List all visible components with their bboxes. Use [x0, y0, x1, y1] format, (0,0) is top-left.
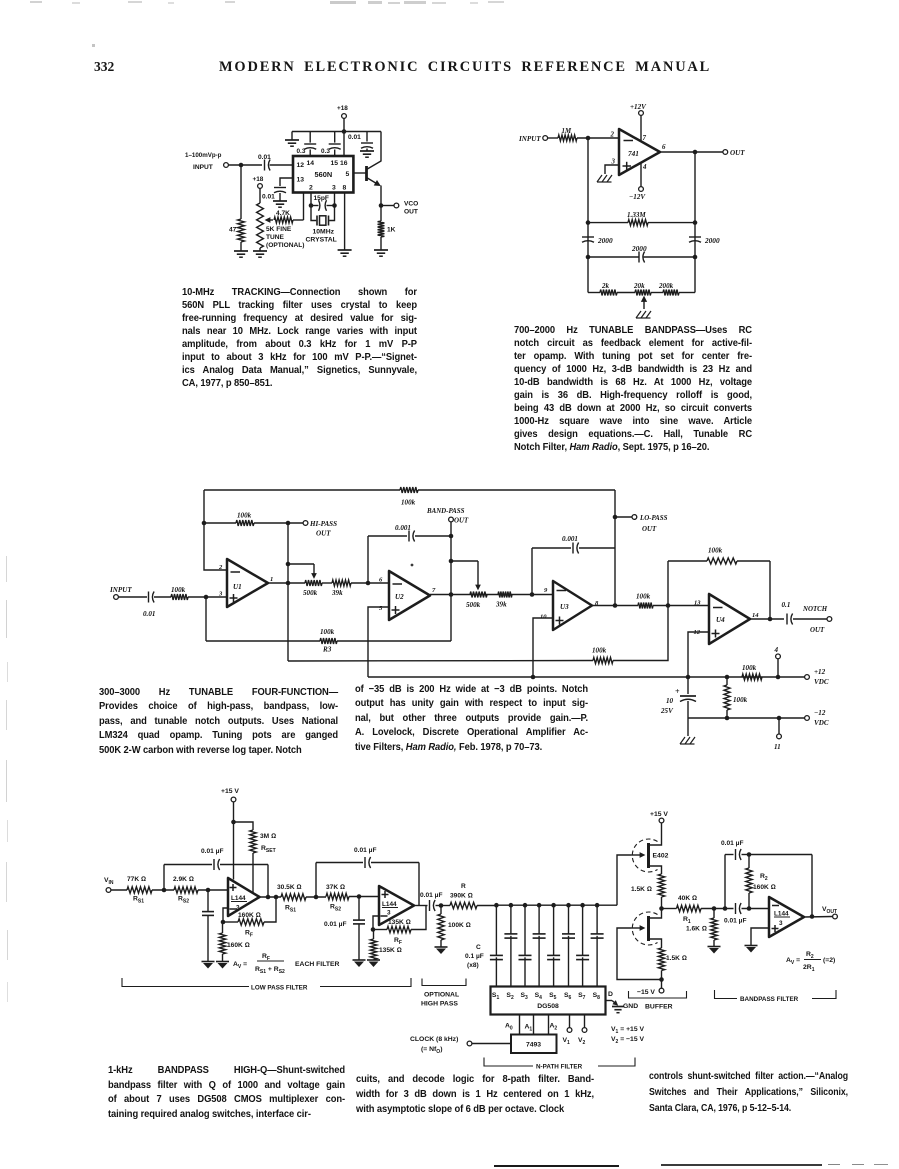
middle notch wire with capacitor 2000 — [586, 255, 591, 260]
capacitor 2000 right — [689, 236, 701, 238]
ground under op2 input cap — [353, 959, 366, 961]
svg-text:EACH FILTER: EACH FILTER — [295, 961, 340, 968]
U3 pin 10 to common rail — [533, 618, 553, 677]
svg-text:VDC: VDC — [814, 678, 829, 686]
DG508 multiplexer box — [491, 987, 606, 1015]
op-amp 1 L144/3 — [228, 878, 260, 916]
ground at 20k wiper — [636, 311, 641, 318]
svg-text:CRYSTAL: CRYSTAL — [306, 237, 337, 244]
U3 output wire with 100k — [592, 605, 638, 607]
supply wire into op-amp 1 — [233, 802, 235, 880]
svg-text:3: 3 — [218, 591, 223, 598]
svg-text:10: 10 — [540, 614, 547, 621]
svg-text:(x8): (x8) — [467, 962, 479, 969]
svg-text:BAND-PASS: BAND-PASS — [426, 508, 465, 515]
pin 11 terminal — [778, 718, 780, 734]
-12 VDC terminal — [805, 716, 810, 721]
resistor 100k bias divider — [726, 677, 728, 685]
svg-text:1K: 1K — [387, 227, 396, 234]
svg-text:0.001: 0.001 — [562, 535, 578, 543]
svg-text:30.5K Ω: 30.5K Ω — [277, 884, 302, 891]
svg-text:VDC: VDC — [814, 719, 829, 727]
svg-text:16: 16 — [340, 160, 348, 167]
CLOCK input terminal — [467, 1041, 472, 1046]
wire 1M to opamp pin 2 — [577, 137, 619, 139]
svg-text:2R1: 2R1 — [803, 964, 815, 973]
bottom tuning network wire — [588, 292, 600, 294]
pin 3 ground wire — [605, 165, 619, 174]
svg-text:100k: 100k — [636, 593, 651, 601]
svg-text:L144: L144 — [231, 895, 246, 902]
svg-text:0.01 µF: 0.01 µF — [354, 847, 377, 854]
node -15V junction — [659, 977, 664, 982]
collector wire to top rail — [380, 132, 382, 162]
ground under 160K — [216, 961, 229, 963]
svg-text:8: 8 — [343, 185, 347, 192]
INPUT terminal — [543, 136, 548, 141]
capacitor 0.1 notch output — [786, 614, 788, 625]
svg-text:2k: 2k — [601, 282, 610, 290]
address pins A0 A1 A2 — [519, 1015, 521, 1035]
svg-text:12: 12 — [297, 162, 305, 169]
+18 terminal fine-tune supply — [258, 184, 263, 189]
resistor 100k hi-pass feedback — [204, 522, 236, 524]
svg-text:R2: R2 — [760, 873, 768, 882]
resistor 1.5K lower — [658, 948, 664, 971]
svg-text:0.01: 0.01 — [262, 194, 275, 201]
svg-text:7: 7 — [432, 587, 436, 594]
svg-text:INPUT: INPUT — [109, 586, 132, 594]
svg-text:135K Ω: 135K Ω — [379, 947, 402, 954]
bypass cap 0.3 on pin 14 — [309, 150, 311, 157]
svg-text:3: 3 — [236, 905, 240, 912]
svg-text:+12: +12 — [814, 668, 826, 676]
svg-text:TUNE: TUNE — [266, 234, 285, 241]
svg-text:100k: 100k — [742, 664, 757, 672]
U4 output wire — [750, 618, 784, 620]
svg-text:0.01 µF: 0.01 µF — [324, 921, 347, 928]
svg-text:0.01: 0.01 — [348, 134, 361, 141]
svg-text:160K Ω: 160K Ω — [753, 884, 776, 891]
svg-text:2: 2 — [610, 132, 615, 139]
op-amp U3 — [553, 581, 592, 630]
resistor R 390K — [450, 902, 477, 908]
ground under op1 input cap — [202, 961, 215, 963]
svg-text:500k: 500k — [466, 601, 481, 609]
svg-text:100k: 100k — [733, 696, 748, 704]
node after R1 — [712, 906, 717, 911]
potentiometer 20k — [635, 290, 651, 296]
wire input to coupling cap — [228, 164, 262, 166]
svg-text:INPUT: INPUT — [518, 135, 541, 143]
svg-text:L144: L144 — [774, 911, 789, 918]
svg-text:HIGH PASS: HIGH PASS — [421, 1001, 458, 1008]
caption text: 300-3000 Hz TUNABLE FOUR-FUNCTION left column — [99, 686, 338, 758]
resistor 47 — [240, 165, 242, 219]
capacitor 0.01 input — [148, 592, 150, 603]
svg-text:47: 47 — [229, 227, 237, 234]
coupling capacitor 0.01uF — [414, 905, 428, 907]
LOW PASS FILTER bracket — [122, 978, 249, 987]
node output junction — [693, 150, 698, 155]
ground under resistor 47 — [234, 250, 248, 252]
vertical U1 output to feedbacks — [287, 523, 289, 661]
BANDPASS FILTER bracket — [715, 990, 738, 999]
svg-text:135K Ω: 135K Ω — [388, 919, 411, 926]
svg-text:L144: L144 — [382, 901, 397, 908]
-15 V terminal — [661, 980, 663, 989]
svg-text:U4: U4 — [716, 616, 725, 624]
node hi-pass junction — [286, 521, 291, 526]
svg-text:2000: 2000 — [631, 244, 647, 253]
resistor 100k U1-output to U4 lower feedback wire — [288, 660, 593, 663]
svg-text:39k: 39k — [495, 601, 507, 609]
electrolytic capacitor 10uF 25V — [687, 677, 689, 694]
stray print speck near U2 — [411, 564, 414, 567]
wire input to 1M — [548, 137, 558, 139]
LO-PASS OUT terminal — [615, 516, 632, 518]
OUT terminal — [723, 150, 728, 155]
svg-text:100k: 100k — [592, 647, 607, 655]
crystal 10MHz — [311, 206, 316, 221]
svg-text:5: 5 — [379, 605, 383, 612]
op1 - input stub — [223, 908, 228, 922]
svg-text:3: 3 — [332, 185, 336, 192]
svg-text:0.01 µF: 0.01 µF — [721, 840, 744, 847]
svg-text:NOTCH: NOTCH — [802, 606, 828, 613]
bypass cap 0.3 on pin 15 — [334, 150, 336, 157]
ground under 100K — [435, 946, 448, 948]
JFET lower — [631, 927, 640, 929]
node +18 top rail junction — [342, 129, 347, 134]
resistor R3 100k notch feedback — [206, 640, 320, 642]
wire cap to pin 12 — [270, 164, 293, 166]
op-amp U2 — [389, 571, 430, 620]
+15 V terminal stage 1 — [231, 797, 236, 802]
node VCO out junction — [379, 203, 384, 208]
svg-text:OUT: OUT — [404, 209, 418, 216]
node op2 + input junction — [357, 894, 362, 899]
capacitor 2000 left — [582, 236, 594, 238]
coupling capacitor 0.01uF bandpass — [735, 903, 737, 914]
left feedback vertical to U1 pin 2 — [204, 490, 227, 570]
svg-text:N-PATH FILTER: N-PATH FILTER — [536, 1064, 583, 1071]
svg-text:741: 741 — [628, 149, 639, 158]
svg-text:V1 = +15 V: V1 = +15 V — [611, 1026, 644, 1035]
svg-text:R2: R2 — [806, 951, 814, 960]
svg-text:E402: E402 — [653, 853, 669, 860]
svg-text:11: 11 — [774, 743, 781, 751]
potentiometer 500k (2) — [470, 592, 487, 598]
resistor 1M — [558, 135, 577, 141]
resistor R1 40K — [662, 908, 677, 910]
svg-text:160K Ω: 160K Ω — [238, 912, 261, 919]
svg-text:4.7K: 4.7K — [276, 210, 290, 217]
resistor 100k input — [154, 596, 171, 598]
-12 VDC rail — [688, 717, 805, 719]
switch column S8 wire and capacitor C — [595, 903, 600, 908]
ground under 1.6K — [708, 946, 721, 948]
svg-text:VOUT: VOUT — [822, 906, 837, 915]
7493 counter box — [511, 1035, 557, 1054]
svg-text:4: 4 — [774, 646, 779, 654]
wire 4.7K to IC bottom pin — [293, 219, 304, 221]
switch column S4 wire and capacitor C — [537, 903, 542, 908]
right vertical lo-pass node — [614, 490, 616, 606]
svg-text:2: 2 — [309, 185, 313, 192]
svg-text:DG508: DG508 — [537, 1003, 559, 1010]
caption text: 1-kHz BANDPASS column 2 — [356, 1073, 594, 1118]
wiper arrow of 5K pot — [270, 219, 273, 221]
svg-text:RF: RF — [245, 930, 253, 939]
svg-text:1.5K Ω: 1.5K Ω — [666, 955, 687, 962]
svg-text:4: 4 — [642, 164, 647, 171]
svg-text:RS1: RS1 — [133, 896, 144, 905]
capacitor 0.01 collector bypass — [366, 132, 368, 142]
scan artifact: bottom rule fragments — [494, 1165, 619, 1168]
svg-text:RS2: RS2 — [178, 896, 189, 905]
op1 output wire — [260, 896, 282, 898]
resistor 135K to ground — [373, 930, 375, 940]
circuit 1: 560N PLL tracking filter — [185, 105, 418, 257]
ground under 1K — [374, 249, 388, 251]
capacitor 0.01 input coupling — [264, 160, 266, 171]
wiper branch of 500k pot 2 — [451, 560, 478, 562]
capacitor 0.001 U3 feedback — [532, 547, 571, 549]
svg-text:BANDPASS FILTER: BANDPASS FILTER — [740, 996, 799, 1003]
ground at op3 + — [745, 945, 758, 947]
NOTCH OUT terminal — [793, 618, 827, 620]
resistor 4.7K — [274, 217, 293, 223]
svg-text:(=2): (=2) — [823, 957, 835, 964]
svg-text:100K Ω: 100K Ω — [448, 922, 471, 929]
top rail wire — [292, 131, 381, 133]
svg-text:13: 13 — [694, 600, 701, 607]
running head MODERN ELECTRONIC CIRCUITS REFERENCE MANUAL — [219, 59, 711, 76]
resistor 39k (1) — [322, 582, 332, 584]
svg-text:−12: −12 — [814, 709, 826, 717]
buffer gate wire from bank — [617, 855, 631, 905]
VIN input terminal — [106, 888, 111, 893]
svg-text:100k: 100k — [320, 628, 335, 636]
wire +18 to pin 16 — [343, 118, 345, 156]
svg-text:10: 10 — [666, 697, 674, 705]
svg-text:200k: 200k — [658, 282, 674, 290]
input terminal 1-100mVp-p INPUT — [224, 163, 229, 168]
resistor 1K — [380, 206, 382, 222]
svg-text:9: 9 — [544, 587, 548, 594]
U4 pin 12 to common rail — [688, 632, 709, 677]
capacitor 0.001 U2 feedback — [368, 535, 407, 537]
switch column S1 wire and capacitor C — [494, 903, 499, 908]
node buffer output — [659, 906, 664, 911]
svg-text:OUT: OUT — [642, 526, 657, 533]
resistor 160K to ground — [222, 922, 224, 933]
svg-text:0.3: 0.3 — [321, 148, 330, 155]
resistor R2 160K — [748, 855, 750, 869]
svg-text:14: 14 — [307, 160, 315, 167]
op-amp 3 L144/3 bandpass — [769, 897, 804, 937]
potentiometer 5K FINE TUNE — [257, 203, 264, 248]
node U3 input junction — [530, 592, 535, 597]
BUFFER bracket — [629, 991, 687, 998]
capacitor bank top rail — [496, 904, 617, 906]
svg-text:OPTIONAL: OPTIONAL — [424, 992, 459, 999]
svg-text:10MHz: 10MHz — [313, 229, 335, 236]
svg-text:−15 V: −15 V — [637, 989, 655, 996]
svg-text:100k: 100k — [237, 512, 252, 520]
page number 332 — [94, 59, 114, 75]
VOUT terminal — [804, 916, 833, 919]
svg-text:100k: 100k — [171, 586, 186, 594]
+15 V terminal buffer — [659, 818, 664, 823]
wire input node down to R3 — [205, 597, 207, 641]
svg-text:U3: U3 — [560, 603, 569, 611]
resistor 39k (2) — [498, 592, 512, 598]
op-amp U4 — [709, 594, 750, 644]
svg-text:0.01: 0.01 — [143, 610, 155, 618]
resistor 1.33M feedback — [586, 220, 591, 225]
svg-text:20k: 20k — [633, 282, 645, 290]
common rail to +12 VDC — [368, 676, 805, 678]
svg-text:R: R — [461, 883, 466, 890]
caption text: 1-kHz BANDPASS column 3 — [649, 1069, 848, 1117]
resistor RS2 37K — [326, 893, 349, 899]
svg-text:RF: RF — [394, 937, 402, 946]
svg-text:2.9K Ω: 2.9K Ω — [173, 876, 194, 883]
op3 + input to ground — [751, 928, 769, 945]
svg-text:77K Ω: 77K Ω — [127, 876, 146, 883]
ground under 135K — [367, 959, 380, 961]
svg-text:V1: V1 — [563, 1037, 571, 1046]
svg-text:AV =: AV = — [233, 961, 247, 970]
scan artifact: speck above page number — [92, 44, 95, 47]
ground at pin 3 — [597, 175, 602, 182]
svg-text:CLOCK (8 kHz): CLOCK (8 kHz) — [410, 1036, 458, 1043]
svg-text:OUT: OUT — [316, 530, 331, 538]
svg-text:0.01 µF: 0.01 µF — [201, 848, 224, 855]
circuit 3: 300-3000 Hz tunable four-function filter — [109, 487, 832, 751]
caption text: 1-kHz BANDPASS HIGH-Q column 1 — [108, 1064, 345, 1122]
svg-text:2000: 2000 — [704, 236, 720, 245]
svg-text:R3: R3 — [322, 646, 332, 654]
caption text: 700-2000 Hz TUNABLE BANDPASS — [514, 325, 752, 455]
svg-text:VIN: VIN — [104, 877, 114, 886]
svg-text:V2: V2 — [578, 1037, 586, 1046]
ground under 5K pot — [253, 250, 267, 252]
resistor RS2 2.9K — [174, 887, 198, 893]
node stage2 input junction — [314, 895, 319, 900]
node inverting input junction — [586, 136, 591, 141]
svg-text:160K Ω: 160K Ω — [227, 942, 250, 949]
vertical to U2 0.001 cap — [367, 536, 369, 583]
resistor RF 135K — [373, 929, 387, 931]
svg-text:HI-PASS: HI-PASS — [309, 520, 337, 528]
svg-text:A1: A1 — [525, 1024, 533, 1033]
band-pass node vertical — [450, 522, 452, 641]
node U2 input junction — [366, 581, 371, 586]
svg-text:25V: 25V — [660, 707, 674, 715]
svg-text:1M: 1M — [562, 128, 572, 135]
svg-text:U1: U1 — [233, 583, 242, 591]
resistor 1.5K upper — [658, 874, 664, 897]
svg-text:560N: 560N — [315, 170, 333, 179]
svg-text:+18: +18 — [253, 176, 264, 183]
capacitor to ground at op1 input — [207, 890, 209, 911]
svg-text:+12V: +12V — [630, 103, 647, 111]
svg-text:C: C — [476, 944, 481, 951]
svg-text:+18: +18 — [337, 105, 348, 112]
svg-text:3: 3 — [779, 920, 783, 927]
-12V supply terminal — [640, 163, 642, 187]
svg-text:0.01 µF: 0.01 µF — [420, 892, 443, 899]
resistor 100K to ground — [440, 906, 442, 915]
ground under 0.01 bypass — [360, 150, 374, 152]
ground below electrolytic — [687, 718, 689, 736]
capacitor 0.01uF to ground at op2 input — [358, 897, 360, 920]
circuit 2: 700-2000 Hz tunable bandpass — [518, 103, 745, 318]
vertical to U3 0.001 cap — [531, 548, 533, 595]
svg-text:39k: 39k — [331, 589, 343, 597]
svg-text:0.1 µF: 0.1 µF — [465, 953, 484, 960]
left ground of top rail — [291, 132, 293, 141]
scan artifact: left margin binding marks — [6, 556, 7, 582]
svg-text:RS2: RS2 — [330, 904, 341, 913]
resistor RF 160K — [223, 921, 238, 923]
svg-text:14: 14 — [752, 612, 759, 619]
svg-text:7: 7 — [643, 135, 647, 142]
svg-text:INPUT: INPUT — [193, 164, 213, 171]
svg-text:RS1: RS1 — [285, 905, 296, 914]
svg-text:2000: 2000 — [597, 236, 613, 245]
node input junction — [204, 595, 209, 600]
U4 feedback 100k — [667, 561, 669, 606]
svg-text:U2: U2 — [395, 593, 404, 601]
svg-text:0.01: 0.01 — [258, 154, 271, 161]
svg-text:5: 5 — [346, 171, 350, 178]
svg-text:R1: R1 — [683, 916, 691, 925]
svg-text:5K FINE: 5K FINE — [266, 226, 292, 233]
IC U1 560N box — [293, 156, 353, 193]
capacitor 15pF across pins 2-3 — [310, 193, 312, 206]
svg-text:13: 13 — [297, 177, 305, 184]
resistor 100k on +12 rail — [742, 674, 762, 680]
U2 output wire — [430, 594, 553, 596]
svg-text:1.33M: 1.33M — [627, 211, 646, 219]
svg-text:1.6K Ω: 1.6K Ω — [686, 926, 707, 933]
V1 V2 supply pins — [569, 1015, 571, 1028]
node after coupling cap — [439, 903, 444, 908]
switch column S6 wire and capacitor C — [566, 903, 571, 908]
switch column S7 wire and capacitor C — [580, 903, 585, 908]
left feedback vertical wire — [587, 138, 589, 293]
svg-text:0.3: 0.3 — [297, 148, 306, 155]
svg-text:GND: GND — [623, 1003, 638, 1010]
ground under pin13 cap — [273, 200, 287, 202]
resistor RSET 3M — [234, 822, 254, 830]
svg-text:2: 2 — [218, 564, 223, 571]
svg-text:A0: A0 — [505, 1023, 513, 1032]
op-amp 741 — [619, 129, 660, 175]
top feedback wire 100k — [204, 489, 400, 491]
svg-text:37K Ω: 37K Ω — [326, 884, 345, 891]
svg-text:1: 1 — [270, 576, 273, 583]
VCO OUT terminal — [381, 205, 394, 207]
svg-text:100k: 100k — [708, 547, 723, 555]
op-amp 2 L144/3 — [379, 886, 414, 925]
OPTIONAL HIGH PASS bracket — [422, 979, 466, 986]
svg-text:0.1: 0.1 — [782, 601, 791, 609]
